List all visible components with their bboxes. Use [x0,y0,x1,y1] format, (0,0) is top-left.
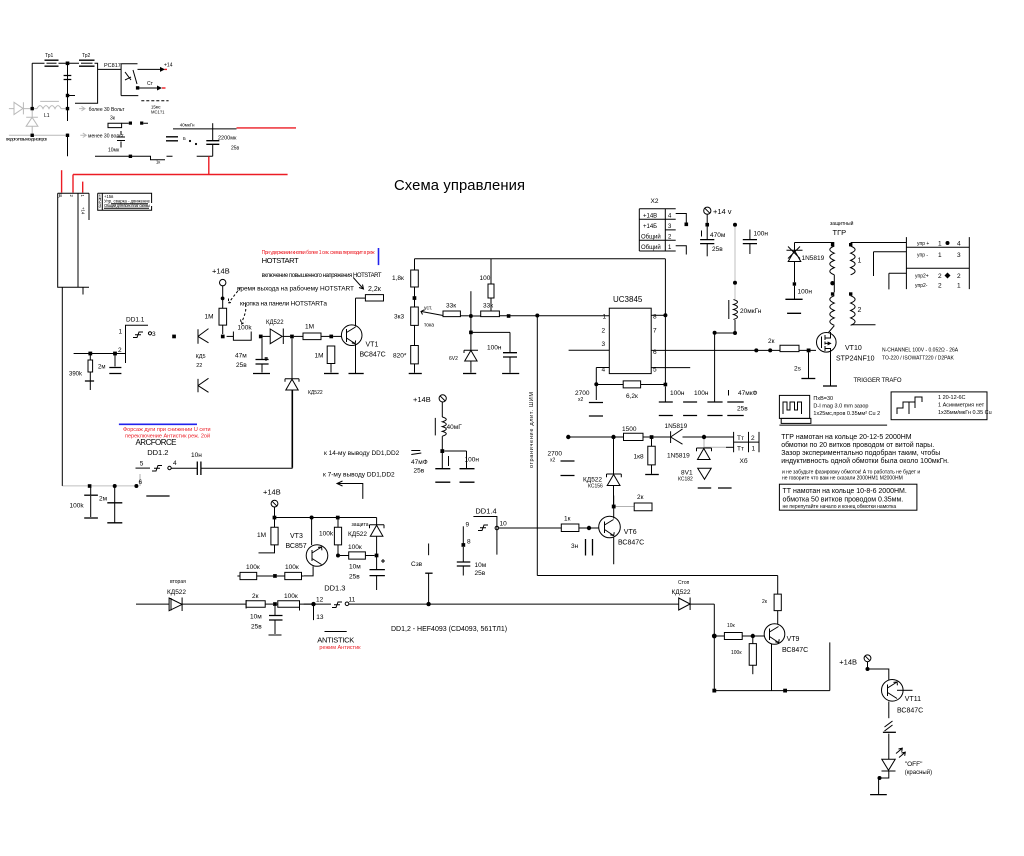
svg-text:100к: 100к [348,544,362,551]
capacitor 2m [98,355,121,374]
SECTION: middle 14V [323,395,479,499]
led HL OFF [882,748,933,776]
svg-text:470м: 470м [710,232,726,239]
transistor VT3 BC857 [286,518,328,576]
svg-text:5: 5 [140,460,144,467]
wire LED cathode [880,771,889,778]
transformer TGR winding1 left [830,243,835,275]
box secondary rectifier [68,63,98,103]
svg-text:Б: Б [183,136,186,141]
transformer TGR winding2 left [830,292,835,325]
svg-text:Тр1: Тр1 [45,53,54,59]
svg-text:1: 1 [938,252,942,259]
svg-text:100к: 100к [731,650,742,656]
svg-text:защита: защита [352,522,369,528]
svg-text:Зазор экспериментально подобра: Зазор экспериментально подобран таким, ч… [781,449,940,457]
resistor 1.8k [392,259,418,287]
svg-text:10к: 10к [727,623,736,629]
zener VD 8V1 [678,468,711,482]
wire arcforce riser [292,391,294,468]
svg-text:Ст: Ст [147,81,154,87]
svg-text:820*: 820* [393,353,407,360]
svg-text:VT1: VT1 [366,342,379,349]
svg-text:упр +: упр + [917,241,929,247]
svg-text:вторая: вторая [170,579,186,585]
wire top rail [415,258,666,260]
wire box bottom [537,575,777,577]
transistor VT1 BC847C [341,298,385,373]
svg-text:40мкГн: 40мкГн [180,123,195,128]
svg-text:1: 1 [858,258,862,265]
junction [663,313,667,317]
transformer TGR winding1 right [849,243,906,275]
svg-text:100k: 100k [238,325,253,332]
capacitor 2700 pin4 [575,390,603,416]
svg-text:6,2к: 6,2к [626,393,638,400]
inductor 20mkH [729,300,762,334]
wire 14V link [707,224,709,226]
resistor 100k chain a [237,564,273,580]
wire center vertical [67,63,69,121]
svg-text:обмотка 50 витков проводом 0.3: обмотка 50 витков проводом 0.35мм. [783,496,904,504]
svg-text:X2: X2 [651,198,659,205]
svg-text:ограничение длит. ШИМ: ограничение длит. ШИМ [529,392,535,468]
wire red out A [237,127,297,129]
svg-text:3к: 3к [110,116,116,122]
svg-text:МС1?1: МС1?1 [151,110,165,115]
svg-text:2200мк: 2200мк [218,136,237,142]
svg-text:TO-220 / ISOWATT220 / D2PAK: TO-220 / ISOWATT220 / D2PAK [882,356,954,362]
junction [594,382,598,386]
junction [31,107,34,110]
trimpot mark [411,451,421,455]
svg-text:25в: 25в [236,362,247,369]
junction [733,331,737,335]
capacitor 100n tgr [785,286,812,314]
svg-text:КД522: КД522 [308,390,323,396]
ground dashes [698,487,732,489]
svg-text:100н: 100н [694,390,709,397]
svg-text:100к: 100к [284,593,298,600]
annotation dashed arrow1 [229,288,241,304]
svg-text:25в: 25в [475,570,486,577]
wire pin3 [569,349,610,351]
svg-text:10мк: 10мк [108,148,120,154]
svg-text:индуктивность одной обмотки бы: индуктивность одной обмотки была около 1… [781,457,949,465]
junction [129,155,132,158]
junction [66,134,69,137]
junction [88,484,92,488]
junction [375,554,379,558]
capacitor 10mk [108,131,125,154]
resistor 1k [561,516,598,532]
svg-text:3: 3 [152,331,156,338]
figure core E waveform box [779,395,811,423]
svg-text:КД522: КД522 [167,589,186,596]
capacitor Czv [428,544,430,556]
svg-text:100: 100 [480,275,491,282]
svg-text:100к: 100к [285,564,299,571]
svg-text:100н: 100н [798,289,813,296]
junction [113,484,117,488]
svg-text:ВС847С: ВС847С [897,708,923,715]
diode VD 1N5819 tgr [787,243,825,283]
junction [329,335,333,339]
wire X2 pin4 hook [676,214,687,223]
svg-text:2к: 2к [252,593,259,600]
gate DD1.4 [466,507,508,555]
legend box [98,193,152,210]
wire zener drop [291,338,293,378]
svg-text:1,8к: 1,8к [392,275,404,282]
svg-text:1500: 1500 [622,426,637,433]
svg-text:3н: 3н [571,543,579,550]
wire top rail [32,62,79,64]
svg-text:не говорите что вам не сказали: не говорите что вам не сказали 2000НМ1 М… [782,476,903,482]
svg-text:1 Асимметрия нет: 1 Асимметрия нет [938,403,985,409]
wire to VT11 [868,669,889,680]
diode VD KD522 vt6 [583,439,621,505]
resistor 6.2k [598,381,665,400]
svg-text:ARCFORCE: ARCFORCE [136,438,177,447]
wire sense row [62,485,136,487]
svg-text:10н: 10н [191,452,202,459]
svg-text:+14Б: +14Б [643,224,657,230]
svg-text:25в: 25в [414,468,425,475]
svg-text:N-CHANNEL 100V - 0.052Ω - 26A: N-CHANNEL 100V - 0.052Ω - 26A [882,348,959,354]
SECTION: bottom rail DD1.3 [136,579,679,651]
svg-text:КД522: КД522 [348,531,367,538]
SECTION: DD1.1 input [69,317,156,391]
wire zener column [470,291,472,350]
svg-text:х2: х2 [578,397,584,403]
wire center tap [833,275,835,293]
svg-text:+14В: +14В [643,213,657,219]
svg-text:10м: 10м [250,614,262,621]
inductor L1 gray [37,101,61,119]
svg-text:8V1: 8V1 [681,470,693,477]
wire +14 out [173,128,237,130]
resistor 10k base [716,623,764,640]
svg-text:VT6: VT6 [624,529,637,536]
svg-text:2м: 2м [99,496,108,503]
diode VD gray input [9,102,24,114]
svg-text:Щ: Щ [58,194,63,198]
SECTION: X1 connector [58,193,152,486]
svg-text:2s: 2s [794,366,802,373]
svg-text:VT3: VT3 [290,533,303,540]
zener VD hotstart [285,379,323,468]
svg-text:2: 2 [118,347,122,354]
svg-text:100н: 100н [670,390,685,397]
junction [469,314,473,318]
diode VD KD522 lower [198,378,209,392]
junction [426,602,430,606]
svg-text:8: 8 [467,539,471,546]
junction center tap [830,281,834,285]
svg-text:2: 2 [602,327,606,334]
svg-text:3: 3 [602,341,606,348]
svg-text:время выхода на рабочему HOTST: время выхода на рабочему HOTSTART [237,284,354,292]
svg-text:PC817: PC817 [104,63,121,69]
svg-text:1к8: 1к8 [634,454,644,461]
svg-text:ПхВ=30: ПхВ=30 [813,396,833,402]
capacitor 10m rail [250,606,283,635]
svg-text:Схема управления: Схема управления [394,178,525,194]
junction [712,634,717,639]
diode VD KD522 out [672,580,715,610]
svg-text:25в: 25в [251,624,262,631]
optocoupler U PC817 [98,63,139,96]
svg-text:+14В: +14В [212,267,230,276]
svg-text:2м: 2м [98,365,105,371]
wire left vertical [31,63,33,108]
SECTION: title [394,178,525,194]
figure asym box [891,392,992,420]
junction [685,223,689,227]
resistor emitter slash [885,721,893,731]
capacitor 100n pin8 [664,387,666,402]
diode VD KD522 series [263,320,290,344]
wire primary top [795,242,835,244]
SECTION: top-left power/opto input [6,53,296,193]
junction [336,554,340,558]
resistor 100k chain b [277,564,304,580]
resistor 1500 [622,426,671,441]
capacitor 47m 25v [235,339,270,374]
resistor 3k [108,116,122,128]
svg-text:100к: 100к [246,564,260,571]
svg-text:1N5819: 1N5819 [802,255,825,262]
svg-text:Общий: Общий [641,244,661,251]
wire corner down [713,604,715,691]
diode VD 1N5819 sense [665,423,734,444]
junction [566,435,570,439]
wire red drop X1 pin [82,182,84,193]
SECTION: HOTSTART [172,248,386,468]
potentiometer 100k [227,325,253,341]
svg-text:HOTSTART: HOTSTART [262,256,299,265]
wire X1 pin down left [61,287,63,486]
wire Tt row2 hook [704,437,725,447]
arrow less30V [80,133,86,137]
junction [612,505,616,509]
svg-text:не перепутайте начало и конец: не перепутайте начало и конец обмотки на… [783,503,897,510]
junction [31,134,34,137]
svg-text:ТГР: ТГР [833,228,847,237]
svg-text:2700: 2700 [548,451,563,458]
wire feedback drop [536,316,538,576]
svg-text:390k: 390k [69,372,83,378]
svg-text:более 30 Вольт: более 30 Вольт [89,107,125,113]
svg-text:2,2к: 2,2к [368,286,382,293]
junction gate [807,349,811,353]
wire drain [829,326,835,333]
transformer T2 [79,53,95,66]
wire VT9 emitter [771,644,773,691]
wire blue overline [119,423,197,425]
svg-text:L1: L1 [44,113,50,119]
svg-text:к 14-му выводу DD1,DD2: к 14-му выводу DD1,DD2 [324,450,400,457]
svg-text:защитный: защитный [830,220,854,227]
svg-text:UC3845: UC3845 [613,295,643,304]
resistor 1M series [294,324,330,340]
svg-text:Форсаж дуги при снижении U сет: Форсаж дуги при снижении U сети [123,427,211,433]
junction [172,335,176,339]
svg-text:100k: 100k [70,503,85,510]
svg-text:DD1.1: DD1.1 [126,317,145,324]
capacitor pin6 plate [146,495,169,497]
svg-text:тока: тока [424,323,434,329]
resistor 1M vertical [205,308,227,334]
junction [705,223,709,227]
junction [88,352,92,356]
node +14V [212,267,230,309]
wire pin4 [596,367,609,369]
svg-text:ВС847С: ВС847С [360,352,386,359]
svg-text:1: 1 [119,329,123,336]
node +14V vt3 [263,488,281,518]
junction [462,543,466,547]
ground gate [801,378,815,380]
svg-text:Стоп: Стоп [678,580,690,586]
ground vt11 [878,778,880,794]
note TT box [779,484,917,510]
diode VD KD522 upper [198,329,209,344]
resistor 2k collector [762,576,781,625]
wire bottom return [95,156,213,159]
node +14 red tick [165,68,168,70]
capacitor 100n mid [683,402,697,416]
resistor 1k8 [634,437,659,475]
svg-text:1М: 1М [315,353,324,360]
wire right riser [829,642,831,690]
capacitor 100n X2 [743,230,769,255]
svg-text:DD1,2 - HEF4093 (CD4093, 561Т: DD1,2 - HEF4093 (CD4093, 561ТЛ1) [391,626,507,633]
junction [733,223,737,227]
svg-text:3: 3 [957,252,961,259]
resistor 820 [393,325,422,373]
svg-text:100н: 100н [754,231,769,238]
gate DD1.1 [118,317,156,364]
capacitor 2700 sense [561,461,575,476]
junction [664,383,668,387]
connector X2 [639,198,675,251]
wire opto out 1 [138,68,163,70]
node +14V vt11 [839,655,871,669]
svg-text:2: 2 [858,307,862,314]
svg-text:1х25мс,пров 0.35мм² Cu 2: 1х25мс,пров 0.35мм² Cu 2 [813,411,880,417]
wire red drop X1 pin [61,170,63,192]
junction [866,667,870,671]
transistor VT10 STP24NF10 mosfet [817,332,875,363]
svg-text:2к: 2к [637,494,644,501]
junction [535,314,539,318]
svg-text:7: 7 [653,327,657,334]
diode VD 1N5819 up [667,448,712,460]
svg-text:+14: +14 [164,63,173,69]
wire sense row [568,436,623,438]
wire DD1.1 input [74,353,126,355]
wire gray AC line 2 [9,134,68,136]
SECTION: ARCFORCE [62,391,292,523]
svg-text:1к: 1к [156,160,160,165]
junction [336,516,340,520]
capacitor 2m arc [99,487,122,523]
junction [768,348,772,352]
junction [221,335,225,339]
svg-text:9: 9 [466,521,470,528]
junction [469,331,473,335]
svg-text:STP24NF10: STP24NF10 [836,356,875,363]
junction [310,516,314,520]
svg-text:упр2+: упр2+ [915,274,929,280]
svg-text:+14В: +14В [839,658,857,667]
svg-text:ВС857: ВС857 [286,543,307,550]
svg-text:25в: 25в [349,574,360,581]
wire bottom rail left [136,603,169,605]
svg-text:2700: 2700 [575,390,590,397]
wire gray AC line 1 [23,108,67,110]
svg-text:кнопка на панели HOTSTARTа: кнопка на панели HOTSTARTа [240,301,327,308]
resistor 33k a [443,303,469,317]
svg-text:8: 8 [653,314,657,321]
svg-text:КД5: КД5 [196,354,206,360]
junction [702,435,706,439]
junction [754,348,758,352]
svg-text:1: 1 [938,240,942,247]
capacitor 100n mid [444,451,479,482]
wire 14V rail down [734,225,736,299]
capacitor 10m 25v vt3 [349,559,385,590]
IC U1 UC3845 [602,295,658,374]
resistor 100k rail [277,593,312,611]
SECTION: divider ladder [392,259,665,374]
svg-text:47мкФ: 47мкФ [738,390,758,397]
annotation arrow pin7 [337,481,363,499]
diode VD KD522 rail [167,579,246,611]
svg-text:Общий для всех плат схемы: Общий для всех плат схемы [104,203,150,208]
svg-text:КД522: КД522 [583,477,602,484]
wire source stub [830,354,832,386]
resistor 33k b [473,303,609,317]
capacitor 10n [171,452,292,475]
diode VD KD522 vt3 [348,518,384,570]
svg-text:VT11: VT11 [905,696,921,703]
wire bottom return [714,690,830,692]
svg-text:ТГР намотан на кольце 20-12-5: ТГР намотан на кольце 20-12-5 2000НМ [781,434,912,441]
junction [713,331,717,335]
inductor 40mH [435,417,462,469]
svg-text:11: 11 [349,597,356,604]
capacitor C1 [64,76,72,80]
junction [507,314,511,318]
svg-text:VT10: VT10 [845,345,862,352]
svg-text:1 20-12-6С: 1 20-12-6С [938,395,966,401]
wire center vertical lower [67,134,69,157]
wire 2k link [616,506,635,508]
wire opto out 2 [138,87,159,89]
junction [751,634,755,638]
connector X output table [906,237,969,289]
svg-text:12: 12 [316,597,324,604]
svg-text:TRIGGER TRAFO: TRIGGER TRAFO [854,378,902,384]
wire rail down [664,259,666,385]
capacitor cap B [707,402,722,416]
svg-text:3: 3 [99,203,102,209]
svg-text:1х35мм/мкГн 0.35 Cu: 1х35мм/мкГн 0.35 Cu [938,410,992,416]
svg-text:вход от силовых конденсаторов: вход от силовых конденсаторов [6,137,48,142]
